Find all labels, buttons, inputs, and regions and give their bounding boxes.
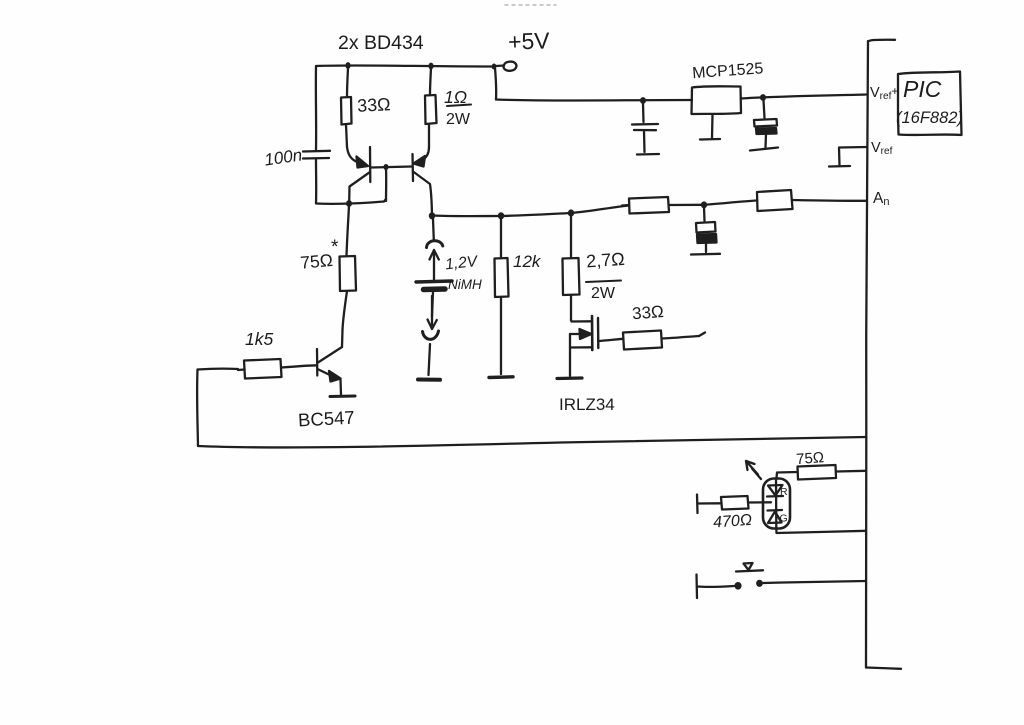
- mosfet channel bar: [591, 316, 594, 350]
- mosfet source stub: [570, 346, 592, 349]
- scan artifact dotted line top: [505, 4, 556, 6]
- resistor 2.7ohm branch: [570, 215, 572, 258]
- diode D1 red: [768, 485, 783, 496]
- svg-text:2x BD434: 2x BD434: [338, 32, 424, 54]
- switch contact right: [756, 580, 763, 587]
- LED package outline: [763, 479, 790, 529]
- wire led resistor right: [836, 470, 866, 473]
- resistor 1ohm 2W: [430, 68, 431, 95]
- wire bus bottom corner: [866, 668, 901, 669]
- resistor 470ohm: [696, 495, 699, 514]
- wire source down: [569, 334, 571, 376]
- svg-text:12k: 12k: [513, 252, 542, 271]
- ground battery: [418, 378, 440, 382]
- label fraction bar: [447, 105, 471, 107]
- wire node to Rb: [704, 201, 757, 205]
- battery bottom wire: [432, 292, 433, 316]
- mosfet gate plate: [597, 318, 600, 348]
- wire 1k5 left: [198, 368, 239, 371]
- wire to ground: [429, 344, 431, 375]
- wire An rail: [432, 206, 629, 217]
- node junction base link: [383, 164, 388, 170]
- IC PIC box: [898, 72, 962, 136]
- wire led bottom: [776, 529, 866, 534]
- resistor 33ohm top: [347, 68, 348, 97]
- ground 12k: [489, 375, 513, 379]
- transistor Q2 BD434 base bar: [411, 154, 414, 181]
- wire diode-connect vertical: [385, 169, 388, 202]
- wire 1k5 right to base: [282, 365, 318, 367]
- resistor 75ohm led: [798, 465, 837, 480]
- svg-text:IRLZ34: IRLZ34: [559, 395, 615, 414]
- node junction 2.7ohm: [568, 209, 574, 216]
- transistor Q1 BD434 base bar: [369, 147, 372, 182]
- wire bottom long rail: [198, 437, 866, 447]
- switch terminal bar: [695, 575, 698, 599]
- ground MCP1525: [711, 115, 714, 139]
- node junction collector Q2 / An rail: [429, 212, 435, 219]
- wire base link Q1 Q2: [371, 167, 413, 168]
- svg-text:R: R: [780, 486, 788, 498]
- wire switch right: [763, 581, 866, 583]
- wire left loop vertical: [315, 67, 318, 151]
- resistor 33ohm gate: [623, 331, 662, 350]
- svg-text:PIC: PIC: [903, 76, 942, 102]
- arrow down: [431, 296, 433, 325]
- node junction top rail right: [428, 63, 433, 70]
- transistor Q2 emitter: [423, 147, 429, 160]
- +5V terminal circle: [504, 62, 517, 71]
- capacitor C2 electrolytic: [764, 100, 765, 118]
- wire switch left: [697, 585, 734, 588]
- svg-text:(16F882): (16F882): [896, 109, 963, 127]
- node junction cap C2: [760, 94, 766, 101]
- mosfet body stub with arrow: [570, 333, 586, 335]
- node junction mirror bottom: [346, 200, 352, 207]
- wire MCP1525 to Vref+ pin: [741, 95, 866, 99]
- wire PIC bus vertical: [866, 41, 868, 668]
- resistor 75ohm star branch: [347, 206, 350, 256]
- svg-text:470Ω: 470Ω: [713, 512, 753, 532]
- wire Rb to An pin: [793, 199, 867, 202]
- transistor Q1 collector: [349, 172, 370, 202]
- svg-text:1,2V: 1,2V: [444, 253, 479, 273]
- light arrow: [746, 461, 758, 475]
- svg-text:2,7Ω: 2,7Ω: [585, 249, 625, 272]
- emitter diagonal: [318, 369, 334, 377]
- emitter wire: [339, 380, 342, 395]
- battery plate short: [424, 286, 446, 292]
- battery top contact arc: [427, 241, 443, 248]
- wire led resistor left: [777, 472, 798, 478]
- wire drain corner: [571, 320, 591, 322]
- node junction cap C1: [640, 97, 646, 104]
- wire left vertical feedback: [196, 370, 199, 447]
- switch contact left: [734, 582, 741, 590]
- wire top +5V rail: [316, 65, 493, 66]
- svg-text:1k5: 1k5: [245, 329, 273, 349]
- capacitor C3: [703, 207, 706, 221]
- wire +5V down to Vref rail: [495, 68, 496, 100]
- resistor 1k5: [244, 359, 282, 379]
- resistor 12k branch: [500, 218, 502, 258]
- ground Vref pin: [839, 147, 867, 166]
- wire led center: [775, 479, 778, 529]
- arrow up: [433, 252, 435, 280]
- resistor Rb on An rail: [757, 190, 793, 211]
- node junction top rail left: [345, 62, 350, 69]
- node +5V terminal dot: [492, 64, 497, 70]
- battery plate long: [416, 281, 452, 282]
- capacitor C1: [642, 103, 645, 122]
- svg-text:33Ω: 33Ω: [357, 94, 391, 116]
- transistor Q1 emitter: [347, 147, 358, 163]
- switch actuator triangle: [744, 563, 753, 570]
- resistor Ra on An rail: [629, 197, 669, 214]
- wire gate hook: [699, 333, 705, 337]
- diode D2 green: [768, 509, 783, 512]
- svg-text:*: *: [331, 237, 339, 258]
- svg-text:2W: 2W: [446, 111, 471, 128]
- wire Vref+ rail to MCP1525: [496, 100, 692, 101]
- svg-text:G: G: [780, 513, 788, 525]
- switch actuator bar: [736, 570, 763, 571]
- collector wire: [341, 330, 344, 347]
- svg-text:75Ω: 75Ω: [299, 250, 333, 273]
- svg-text:+5V: +5V: [508, 27, 551, 54]
- battery bottom contact arc: [423, 331, 439, 339]
- capacitor 100n: [303, 150, 330, 153]
- wire gate: [599, 339, 624, 341]
- svg-text:NiMH: NiMH: [448, 277, 482, 292]
- node junction 12k: [498, 212, 504, 219]
- wire +5V stub: [496, 64, 504, 67]
- wire gate resistor right: [662, 336, 699, 339]
- transistor Q2 collector: [413, 172, 432, 216]
- battery branch wire: [432, 219, 435, 240]
- wire mirror bottom: [316, 199, 386, 204]
- wire Ra to cap node: [669, 204, 704, 206]
- collector diagonal: [318, 347, 342, 363]
- ground mosfet: [557, 376, 582, 380]
- svg-text:2W: 2W: [591, 285, 616, 302]
- label fraction bar 2: [586, 281, 621, 283]
- ground BC547 emitter: [330, 395, 355, 399]
- IC MCP1525 box: [692, 86, 742, 114]
- base bar: [316, 349, 319, 376]
- wire bus top corner: [868, 40, 895, 42]
- node junction An cap: [701, 201, 707, 208]
- svg-text:33Ω: 33Ω: [631, 302, 664, 323]
- svg-text:BC547: BC547: [298, 407, 356, 431]
